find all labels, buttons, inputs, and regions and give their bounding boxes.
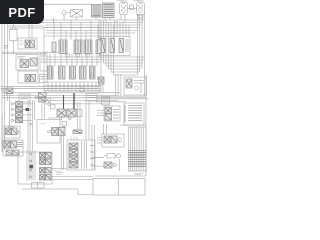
pilot valve V1 top-center [44, 4, 92, 22]
side valve box B-side [40, 54, 47, 71]
relief valve RV1 mid-left edge [2, 88, 14, 101]
pressure line dark [63, 95, 65, 109]
travel motor M2 [137, 1, 145, 15]
gauge circles g2 g3 [48, 98, 51, 101]
wire bottom horizontals [44, 169, 93, 180]
wire verticals right of J [78, 101, 90, 140]
center swivel joint [128, 5, 144, 18]
tiny note text marks [135, 173, 144, 175]
wire verticals flanking box M [61, 125, 94, 170]
wire right vertical bundle inner [99, 20, 114, 75]
drain box under pumps [32, 183, 45, 189]
small cluster above box M [73, 130, 82, 134]
accumulator boxes AC (19,94) [19, 94, 30, 102]
wire left edge verticals [2, 24, 8, 152]
spool comb bottom of bank [48, 82, 96, 91]
wire above strip [120, 124, 146, 126]
wire right staircase horizontals [99, 57, 144, 75]
dashes in pilot box [41, 123, 46, 125]
pump unit block P1 [18, 151, 52, 185]
spool mid connectors [50, 54, 97, 67]
spool comb top of bank [54, 20, 98, 40]
spool row 2 of main bank [48, 66, 96, 79]
valve box A upper left [18, 38, 37, 49]
small valve under J [62, 122, 67, 129]
small comp at (50,104) [51, 105, 56, 110]
wire badge-to-clusterA verticals [29, 24, 32, 38]
aux valve group W right of bank [100, 37, 130, 56]
motor brake block O [124, 103, 144, 125]
valve box E lower-left [4, 126, 20, 138]
wire verticals above P [104, 124, 107, 134]
travel motor M1 [120, 1, 128, 15]
wire verticals above N [116, 74, 121, 96]
shuttle stack P right [97, 134, 124, 147]
gauge circle g1 [5, 45, 8, 48]
pilot box outline center [37, 120, 60, 144]
valve box F lower-left [3, 140, 23, 156]
valve pair VD (38.5,92.5) [35, 93, 46, 103]
solenoid valve stack S1 (4 sections) [10, 101, 33, 126]
wire right mid stubs [115, 20, 130, 36]
wire h-lines y86-88 [1, 87, 101, 89]
wire right outer vertical bundle [138, 12, 147, 96]
wire h-lines y52 [2, 52, 48, 53]
terminal strip table [129, 127, 147, 171]
wire bottom long line [22, 189, 93, 195]
spool row 1 of main bank [52, 40, 101, 54]
wire mid horizontal buses [2, 91, 146, 104]
wire bottom-right lines [95, 96, 146, 176]
valve box R1 right [124, 77, 146, 95]
valve box B left [16, 55, 38, 71]
side box B2-side [40, 75, 48, 83]
wire left edge vertical low [1, 116, 3, 152]
filter F1 upper left [10, 24, 18, 54]
junction box JB2 [102, 97, 110, 105]
travel pilot box M center-bottom [67, 137, 95, 171]
valve box B2 left [18, 71, 38, 83]
pilot valve Q2 [92, 158, 120, 171]
solenoid block U2 top (dark) [92, 3, 115, 20]
wire bank bottom manifold [44, 86, 101, 89]
pilot manifold J center [48, 109, 82, 120]
junction box JB1 below bank [80, 88, 97, 101]
PDF badge [0, 0, 44, 24]
swing valve stack N [97, 106, 120, 121]
label marks above motors [116, 0, 141, 2]
wire right mid horizontals [96, 96, 149, 102]
relief valve small right RV2 [99, 77, 105, 93]
shuttle cluster K [48, 128, 65, 136]
wire top bus lines [8, 20, 145, 33]
wire motor drop lines [121, 15, 142, 23]
wire under badge horizontals [8, 26, 44, 28]
wire center vertical bundle [28, 96, 45, 151]
port circles bank lower right [90, 73, 94, 77]
hand pump Q bottom right [104, 154, 121, 159]
main control valve bank outline [44, 28, 101, 92]
title block table [93, 179, 145, 196]
